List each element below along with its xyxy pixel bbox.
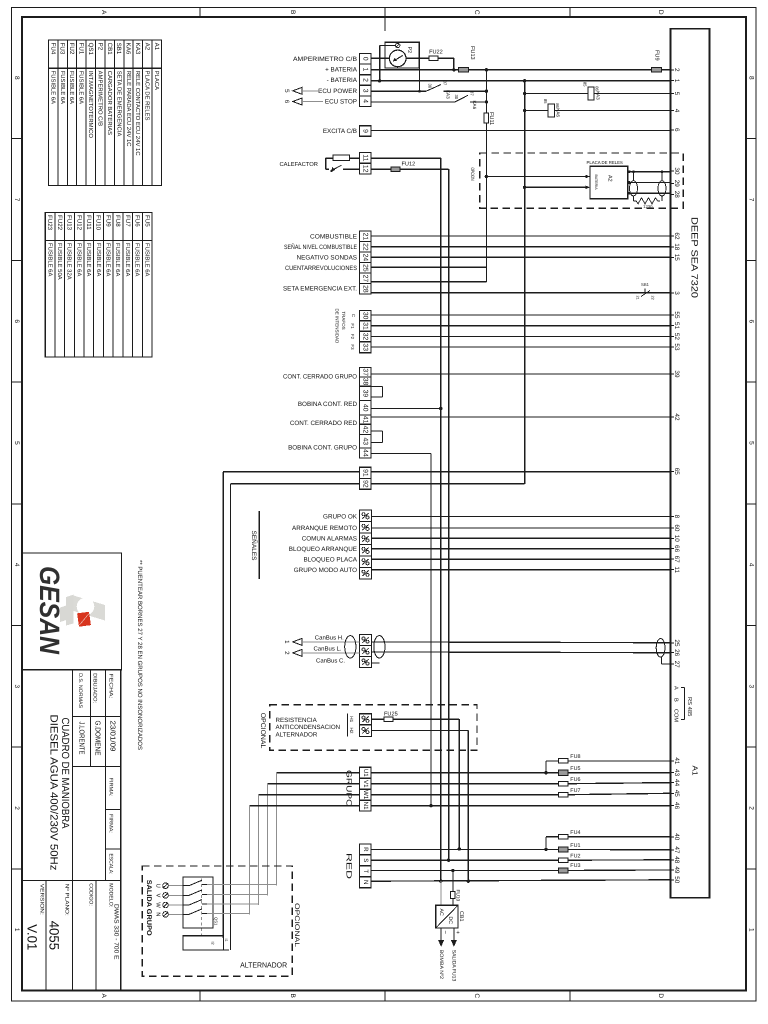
svg-text:28: 28 — [362, 285, 369, 293]
svg-text:0: 0 — [362, 57, 369, 61]
svg-text:NEGATIVO SONDAS: NEGATIVO SONDAS — [297, 255, 357, 262]
svg-text:4055: 4055 — [46, 921, 61, 950]
svg-text:42: 42 — [362, 426, 369, 434]
svg-text:CARGADOR BATERIAS: CARGADOR BATERIAS — [106, 71, 113, 135]
svg-text:OPCIONAL: OPCIONAL — [259, 713, 266, 749]
svg-text:31: 31 — [362, 322, 369, 330]
svg-text:D: D — [657, 10, 664, 15]
svg-text:9: 9 — [362, 129, 369, 133]
svg-text:DWAS 330 - 700 E: DWAS 330 - 700 E — [113, 904, 120, 960]
svg-text:C: C — [473, 10, 480, 15]
svg-text:43: 43 — [673, 769, 680, 777]
svg-text:67: 67 — [673, 556, 680, 564]
svg-text:18: 18 — [673, 243, 680, 251]
svg-text:12: 12 — [362, 165, 369, 173]
svg-text:22: 22 — [650, 296, 654, 300]
svg-text:25: 25 — [362, 264, 369, 272]
svg-text:ARRANQUE REMOTO: ARRANQUE REMOTO — [292, 525, 357, 532]
svg-text:F1: F1 — [350, 323, 355, 329]
svg-text:2: 2 — [13, 806, 20, 810]
svg-text:A: A — [100, 10, 107, 15]
svg-text:49: 49 — [673, 866, 680, 874]
svg-text:FU3: FU3 — [59, 43, 66, 55]
svg-text:87: 87 — [443, 81, 448, 86]
svg-text:BOBINA CONT. GRUPO: BOBINA CONT. GRUPO — [288, 445, 357, 452]
svg-text:8: 8 — [747, 76, 754, 80]
svg-text:P2: P2 — [406, 47, 412, 54]
svg-text:48: 48 — [673, 856, 680, 864]
svg-text:KA6: KA6 — [125, 43, 132, 55]
svg-text:V1: V1 — [362, 780, 369, 788]
svg-text:GRUPO: GRUPO — [345, 770, 354, 807]
svg-text:FU7: FU7 — [124, 215, 131, 227]
svg-text:4: 4 — [13, 563, 20, 567]
svg-text:1: 1 — [673, 79, 680, 83]
svg-text:INT.MAGNETOTERMICO: INT.MAGNETOTERMICO — [87, 71, 94, 139]
svg-text:FU5: FU5 — [143, 215, 150, 227]
svg-text:A1: A1 — [153, 43, 160, 51]
svg-text:32: 32 — [362, 333, 369, 341]
svg-text:FUSIBLE 6A: FUSIBLE 6A — [59, 71, 66, 104]
svg-text:AMPERIMETRO C/B: AMPERIMETRO C/B — [96, 71, 103, 126]
svg-text:CanBus H.: CanBus H. — [315, 634, 344, 641]
svg-text:RS 485: RS 485 — [686, 697, 693, 716]
svg-text:38: 38 — [362, 378, 369, 386]
svg-text:42: 42 — [673, 413, 680, 421]
svg-text:FU13: FU13 — [66, 215, 73, 231]
svg-text:RED: RED — [345, 853, 354, 880]
svg-text:SALIDA FU13: SALIDA FU13 — [451, 950, 457, 982]
svg-text:FUSIBLE 6A: FUSIBLE 6A — [105, 243, 112, 276]
svg-text:15: 15 — [673, 254, 680, 262]
svg-text:A1: A1 — [690, 766, 699, 776]
svg-text:G.DOMENE: G.DOMENE — [93, 721, 102, 756]
svg-text:+: + — [454, 931, 460, 935]
svg-text:3: 3 — [362, 89, 369, 93]
svg-text:FUSIBLE 32A: FUSIBLE 32A — [66, 243, 73, 280]
svg-text:3: 3 — [673, 291, 680, 295]
svg-text:FUSIBLE 6A: FUSIBLE 6A — [95, 243, 102, 276]
svg-text:N1: N1 — [362, 802, 369, 810]
svg-text:FU4: FU4 — [49, 43, 56, 55]
svg-text:44: 44 — [673, 779, 680, 787]
svg-text:21: 21 — [362, 233, 369, 241]
svg-text:KA3: KA3 — [134, 43, 141, 55]
svg-text:BATERIA: BATERIA — [594, 175, 598, 191]
svg-text:C: C — [351, 314, 356, 317]
svg-text:60: 60 — [673, 524, 680, 532]
svg-text:QS1: QS1 — [214, 917, 219, 926]
svg-text:53: 53 — [673, 343, 680, 351]
svg-text:U: U — [154, 884, 160, 888]
svg-text:1: 1 — [362, 68, 369, 72]
svg-text:FU25: FU25 — [384, 711, 398, 717]
svg-text:BOMBA Nº2: BOMBA Nº2 — [438, 950, 444, 980]
svg-text:27: 27 — [673, 661, 680, 669]
svg-text:27: 27 — [362, 275, 369, 283]
svg-text:66: 66 — [673, 545, 680, 553]
svg-text:N: N — [362, 880, 369, 884]
svg-text:V.01: V.01 — [24, 924, 39, 950]
svg-text:30: 30 — [428, 84, 433, 89]
svg-text:R: R — [362, 847, 369, 852]
svg-text:6: 6 — [283, 100, 290, 104]
svg-text:A2: A2 — [606, 175, 612, 182]
svg-text:5: 5 — [13, 441, 20, 445]
svg-text:25: 25 — [673, 639, 680, 647]
svg-text:P2: P2 — [96, 43, 103, 51]
svg-text:FU6: FU6 — [570, 777, 580, 783]
svg-text:22: 22 — [362, 243, 369, 251]
svg-text:TRAFOS: TRAFOS — [341, 311, 346, 329]
svg-text:VERSION:: VERSION: — [39, 884, 45, 915]
svg-text:U1: U1 — [362, 769, 369, 777]
svg-text:J.LORENTE: J.LORENTE — [77, 722, 86, 755]
svg-text:A: A — [100, 994, 107, 999]
svg-text:11: 11 — [362, 154, 369, 161]
svg-text:B: B — [289, 10, 296, 14]
svg-text:PLACA DE RELES: PLACA DE RELES — [144, 71, 151, 121]
svg-text:3: 3 — [747, 685, 754, 689]
svg-text:KA3: KA3 — [595, 91, 600, 100]
svg-text:D: D — [657, 993, 664, 998]
svg-text:FUSIBLE 6A: FUSIBLE 6A — [143, 243, 150, 276]
svg-text:BLOQUEO ARRANQUE: BLOQUEO ARRANQUE — [289, 546, 357, 553]
svg-text:50: 50 — [673, 876, 680, 884]
svg-text:5: 5 — [283, 89, 290, 93]
svg-text:COM: COM — [673, 709, 679, 722]
svg-text:SEÑALES: SEÑALES — [250, 531, 258, 561]
svg-text:MODELO:: MODELO: — [107, 883, 113, 907]
svg-text:FECHA:: FECHA: — [107, 674, 113, 699]
svg-text:CanBus L.: CanBus L. — [313, 646, 341, 653]
svg-text:65: 65 — [673, 468, 680, 476]
svg-text:FU12: FU12 — [402, 161, 416, 167]
svg-text:DIESEL AGUA 400/230V 50Hz: DIESEL AGUA 400/230V 50Hz — [47, 715, 59, 871]
svg-text:+ BATERIA: + BATERIA — [325, 66, 358, 73]
svg-text:30: 30 — [673, 167, 680, 175]
svg-text:- BATERIA: - BATERIA — [327, 77, 358, 84]
svg-text:37: 37 — [362, 368, 369, 376]
svg-text:KA6: KA6 — [556, 108, 561, 117]
svg-text:FU9: FU9 — [653, 50, 659, 61]
svg-text:FUSIBLE 6A: FUSIBLE 6A — [68, 71, 75, 104]
svg-text:FUSIBLE 6A: FUSIBLE 6A — [124, 243, 131, 276]
svg-text:3: 3 — [13, 685, 20, 689]
svg-text:FU1: FU1 — [78, 43, 85, 55]
svg-text:FUSIBLE 6A: FUSIBLE 6A — [49, 71, 56, 104]
svg-text:FU8: FU8 — [570, 754, 580, 760]
svg-text:8: 8 — [673, 515, 680, 519]
svg-text:FU22: FU22 — [429, 50, 443, 56]
svg-text:H2: H2 — [349, 728, 354, 734]
svg-text:FU11: FU11 — [85, 215, 92, 230]
svg-text:SETA EMERGENCIA EXT.: SETA EMERGENCIA EXT. — [283, 285, 357, 292]
svg-text:PLACA: PLACA — [153, 71, 160, 90]
svg-text:CB1: CB1 — [458, 911, 464, 922]
svg-text:5: 5 — [673, 92, 680, 96]
svg-text:2: 2 — [747, 806, 754, 810]
svg-text:2: 2 — [283, 651, 290, 655]
svg-text:41: 41 — [673, 757, 680, 765]
svg-text:D.S. NORMAS: D.S. NORMAS — [77, 673, 83, 709]
svg-text:KA3: KA3 — [446, 90, 451, 99]
svg-text:87: 87 — [470, 91, 475, 96]
svg-text:92: 92 — [362, 480, 369, 488]
svg-text:DC: DC — [447, 917, 453, 925]
svg-text:A2: A2 — [144, 43, 151, 51]
svg-text:FU2: FU2 — [68, 43, 75, 55]
svg-text:CODIGO:: CODIGO: — [87, 883, 93, 905]
svg-text:DE INTENSIDAD: DE INTENSIDAD — [335, 309, 340, 345]
svg-text:CUADRO DE MANIOBRA: CUADRO DE MANIOBRA — [59, 718, 70, 829]
svg-text:52: 52 — [673, 333, 680, 341]
svg-text:ESCALA:: ESCALA: — [107, 854, 113, 875]
svg-text:OPCION: OPCION — [469, 168, 475, 181]
svg-text:FU1: FU1 — [570, 843, 580, 849]
svg-text:AMPERIMETRO C/B: AMPERIMETRO C/B — [293, 56, 357, 63]
svg-text:10: 10 — [673, 535, 680, 543]
svg-text:51: 51 — [673, 322, 680, 330]
svg-text:GRUPO OK: GRUPO OK — [323, 514, 358, 521]
svg-text:1230: 1230 — [643, 204, 653, 209]
svg-text:SETA DE EMERGENCIA: SETA DE EMERGENCIA — [115, 71, 122, 137]
svg-text:FIRMA:: FIRMA: — [107, 814, 113, 833]
svg-text:41: 41 — [362, 416, 369, 424]
svg-text:FU8: FU8 — [114, 215, 121, 227]
svg-text:40: 40 — [362, 404, 369, 412]
svg-text:RESISTENCIA: RESISTENCIA — [276, 717, 318, 724]
svg-text:1: 1 — [13, 928, 20, 932]
svg-text:FU9: FU9 — [104, 215, 111, 227]
svg-text:26: 26 — [673, 649, 680, 657]
svg-text:FUSIBLE 6A: FUSIBLE 6A — [134, 243, 141, 276]
svg-text:FU13: FU13 — [469, 46, 475, 60]
svg-text:FU2: FU2 — [570, 853, 580, 859]
svg-text:GRUPO MODO AUTO: GRUPO MODO AUTO — [294, 567, 357, 574]
svg-text:COMBUSTIBLE: COMBUSTIBLE — [310, 234, 357, 241]
svg-text:FIRMA:: FIRMA: — [107, 778, 113, 797]
svg-text:45: 45 — [673, 790, 680, 798]
svg-text:FU4: FU4 — [570, 830, 580, 836]
svg-text:ANTICONDENSACION: ANTICONDENSACION — [276, 724, 341, 731]
svg-text:39: 39 — [673, 370, 680, 378]
svg-text:33: 33 — [362, 343, 369, 351]
svg-text:F2: F2 — [350, 334, 355, 340]
svg-text:W1: W1 — [362, 790, 369, 800]
svg-text:F3: F3 — [350, 344, 355, 350]
svg-text:AC: AC — [438, 909, 444, 916]
svg-text:B: B — [289, 994, 296, 998]
svg-text:BLOQUEO PLACA: BLOQUEO PLACA — [303, 556, 357, 563]
svg-text:FU6: FU6 — [134, 215, 141, 227]
svg-text:A: A — [673, 686, 679, 690]
svg-text:2: 2 — [362, 78, 369, 82]
svg-text:CONT. CERRADO GRUPO: CONT. CERRADO GRUPO — [283, 373, 357, 380]
svg-text:SALIDA GRUPO: SALIDA GRUPO — [145, 880, 152, 936]
svg-text:OPCIONAL: OPCIONAL — [293, 903, 300, 947]
svg-text:FUSIBLE 6A: FUSIBLE 6A — [78, 71, 85, 104]
svg-text:FU5: FU5 — [570, 766, 580, 772]
svg-text:21: 21 — [635, 296, 639, 300]
svg-text:FU22: FU22 — [56, 215, 63, 231]
svg-text:11: 11 — [673, 566, 680, 573]
svg-text:CB1: CB1 — [106, 43, 113, 56]
svg-text:24: 24 — [362, 254, 369, 262]
svg-text:COMUN ALARMAS: COMUN ALARMAS — [302, 536, 357, 543]
svg-text:6: 6 — [747, 319, 754, 323]
svg-text:85: 85 — [543, 99, 548, 104]
svg-text:29: 29 — [673, 180, 680, 188]
svg-text:B: B — [673, 698, 679, 702]
svg-text:FUSIBLE 6A: FUSIBLE 6A — [114, 243, 121, 276]
svg-text:T: T — [362, 869, 369, 873]
svg-text:FU23: FU23 — [46, 215, 53, 231]
svg-text:ECU STOP: ECU STOP — [325, 99, 357, 106]
svg-text:47: 47 — [673, 846, 680, 854]
svg-text:ECU POWER: ECU POWER — [318, 88, 357, 95]
svg-text:FU11: FU11 — [488, 112, 494, 125]
svg-text:I1: I1 — [224, 939, 228, 942]
svg-text:55: 55 — [673, 311, 680, 319]
svg-text:23/01/09: 23/01/09 — [109, 721, 118, 752]
svg-text:−: − — [442, 931, 448, 935]
svg-text:30: 30 — [454, 95, 459, 100]
svg-text:1: 1 — [747, 928, 754, 932]
svg-text:CONT. CERRADO RED: CONT. CERRADO RED — [290, 420, 358, 427]
svg-text:FU10: FU10 — [95, 215, 102, 231]
svg-text:40: 40 — [673, 833, 680, 841]
svg-text:6: 6 — [13, 319, 20, 323]
svg-text:8: 8 — [13, 76, 20, 80]
svg-text:4: 4 — [362, 99, 369, 103]
svg-text:SB1: SB1 — [641, 282, 650, 287]
svg-text:S: S — [362, 858, 369, 862]
svg-text:I2: I2 — [210, 942, 214, 945]
svg-text:44: 44 — [362, 449, 369, 457]
svg-text:46: 46 — [673, 802, 680, 810]
svg-text:W: W — [154, 902, 160, 908]
svg-text:EXCITA C/B: EXCITA C/B — [323, 128, 357, 135]
svg-text:7: 7 — [747, 198, 754, 202]
svg-text:85: 85 — [583, 82, 588, 87]
svg-text:ALTERNADOR: ALTERNADOR — [240, 961, 287, 970]
svg-text:PLACA DE RELES: PLACA DE RELES — [587, 160, 623, 165]
svg-text:FUSIBLE 6A: FUSIBLE 6A — [75, 243, 82, 276]
svg-text:1: 1 — [283, 640, 290, 644]
svg-text:V: V — [154, 893, 160, 897]
svg-text:5: 5 — [747, 441, 754, 445]
svg-text:DIBUJADO:: DIBUJADO: — [91, 673, 97, 703]
svg-text:RELE CONTACTO ECU 24V 1C: RELE CONTACTO ECU 24V 1C — [134, 71, 141, 157]
svg-text:2: 2 — [673, 68, 680, 72]
svg-text:4: 4 — [673, 109, 680, 113]
svg-text:Nº PLANO:: Nº PLANO: — [63, 884, 69, 916]
svg-text:CUENTARREVOLUCIONES: CUENTARREVOLUCIONES — [285, 265, 357, 272]
svg-text:62: 62 — [673, 232, 680, 240]
svg-text:N: N — [154, 912, 160, 916]
svg-text:H1: H1 — [349, 716, 354, 722]
svg-text:BOBINA CONT. RED: BOBINA CONT. RED — [298, 401, 358, 408]
svg-text:FU7: FU7 — [570, 788, 580, 794]
svg-text:7: 7 — [13, 198, 20, 202]
svg-text:FU12: FU12 — [75, 215, 82, 231]
svg-text:DEEP SEA 7320: DEEP SEA 7320 — [690, 217, 700, 298]
svg-text:FUSIBLE 50A: FUSIBLE 50A — [56, 243, 63, 280]
svg-text:RELE PARADA ECU 24V 1C: RELE PARADA ECU 24V 1C — [125, 71, 132, 148]
svg-text:SB1: SB1 — [115, 43, 122, 55]
svg-text:28: 28 — [673, 191, 680, 199]
svg-text:SEÑAL NIVEL COMBUSTIBLE: SEÑAL NIVEL COMBUSTIBLE — [284, 243, 357, 251]
svg-text:39: 39 — [362, 390, 369, 398]
svg-text:FUSIBLE 6A: FUSIBLE 6A — [85, 243, 92, 276]
svg-text:6: 6 — [673, 128, 680, 132]
svg-text:30: 30 — [362, 312, 369, 320]
svg-text:4: 4 — [747, 563, 754, 567]
svg-text:CALEFACTOR: CALEFACTOR — [279, 161, 318, 168]
svg-text:ALTERNADOR: ALTERNADOR — [276, 732, 318, 739]
svg-text:QS1: QS1 — [87, 43, 94, 56]
svg-text:** PUENTEAR BORNES 27 Y 28 EN: ** PUENTEAR BORNES 27 Y 28 EN GRUPOS NO … — [136, 560, 143, 750]
svg-text:FU10: FU10 — [455, 890, 461, 902]
svg-text:KA6: KA6 — [472, 101, 477, 110]
svg-text:FUSIBLE 6A: FUSIBLE 6A — [46, 243, 53, 276]
svg-text:CanBus C.: CanBus C. — [316, 657, 345, 664]
svg-text:91: 91 — [362, 469, 369, 477]
svg-text:43: 43 — [362, 438, 369, 446]
svg-text:FU3: FU3 — [570, 863, 580, 869]
svg-text:C: C — [473, 993, 480, 998]
